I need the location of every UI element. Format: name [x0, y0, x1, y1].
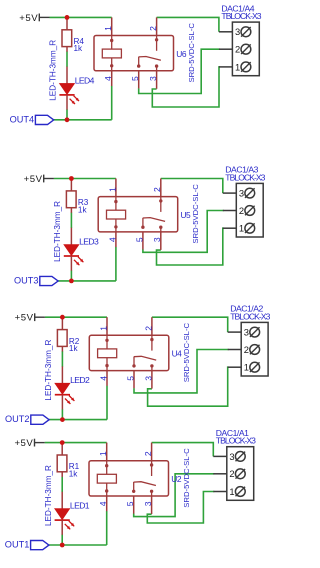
svg-text:1: 1 [98, 451, 108, 456]
svg-text:U6: U6 [176, 49, 187, 59]
svg-text:2: 2 [229, 468, 234, 479]
svg-text:SRD-5VDC-SL-C: SRD-5VDC-SL-C [187, 23, 196, 83]
svg-text:1: 1 [98, 326, 108, 331]
svg-text:TBLOCK-X3: TBLOCK-X3 [221, 11, 261, 21]
svg-text:OUT1: OUT1 [5, 540, 30, 550]
svg-text:1: 1 [229, 486, 234, 497]
svg-text:2: 2 [143, 451, 153, 456]
svg-text:1k: 1k [78, 205, 88, 214]
svg-text:+5V: +5V [15, 313, 34, 324]
svg-text:LED-TH-3mm_R: LED-TH-3mm_R [53, 201, 62, 262]
svg-text:2: 2 [244, 344, 249, 355]
svg-text:2: 2 [143, 326, 153, 331]
svg-text:LED2: LED2 [70, 375, 90, 385]
svg-text:3: 3 [143, 376, 153, 381]
svg-text:+5V: +5V [14, 438, 33, 449]
svg-text:TBLOCK-X3: TBLOCK-X3 [225, 172, 265, 182]
svg-text:5: 5 [125, 376, 135, 381]
svg-text:SRD-5VDC-SL-C: SRD-5VDC-SL-C [182, 448, 191, 508]
svg-text:2: 2 [152, 187, 162, 192]
svg-text:SRD-5VDC-SL-C: SRD-5VDC-SL-C [191, 184, 200, 244]
svg-text:3: 3 [244, 327, 249, 338]
svg-text:4: 4 [98, 501, 108, 506]
svg-text:OUT4: OUT4 [10, 114, 35, 124]
svg-text:1k: 1k [74, 44, 84, 53]
svg-text:TBLOCK-X3: TBLOCK-X3 [216, 436, 256, 446]
svg-text:1: 1 [244, 362, 249, 373]
svg-text:4: 4 [103, 76, 113, 81]
svg-text:OUT3: OUT3 [14, 275, 39, 285]
svg-text:3: 3 [229, 451, 234, 462]
svg-text:TBLOCK-X3: TBLOCK-X3 [230, 311, 270, 321]
svg-text:2: 2 [239, 205, 244, 216]
svg-text:5: 5 [125, 501, 135, 506]
svg-text:4: 4 [98, 376, 108, 381]
svg-text:U4: U4 [172, 349, 183, 359]
svg-text:1: 1 [107, 187, 117, 192]
svg-text:1k: 1k [69, 344, 79, 353]
svg-text:3: 3 [235, 26, 240, 37]
svg-text:LED-TH-3mm_R: LED-TH-3mm_R [44, 465, 53, 526]
svg-text:1: 1 [235, 61, 240, 72]
svg-text:+5V: +5V [24, 174, 43, 185]
svg-text:U5: U5 [181, 210, 192, 220]
svg-text:U2: U2 [171, 474, 182, 484]
svg-text:1: 1 [103, 26, 113, 31]
svg-text:LED3: LED3 [79, 236, 99, 246]
svg-text:LED-TH-3mm_R: LED-TH-3mm_R [44, 340, 53, 401]
svg-text:+5V: +5V [19, 13, 38, 24]
svg-text:2: 2 [148, 26, 158, 31]
svg-text:3: 3 [143, 501, 153, 506]
svg-text:LED-TH-3mm_R: LED-TH-3mm_R [49, 40, 58, 101]
svg-text:5: 5 [134, 237, 144, 242]
svg-text:SRD-5VDC-SL-C: SRD-5VDC-SL-C [182, 322, 191, 382]
svg-text:LED1: LED1 [70, 501, 90, 511]
svg-text:3: 3 [152, 237, 162, 242]
svg-text:LED4: LED4 [75, 75, 95, 85]
svg-text:OUT2: OUT2 [5, 414, 30, 424]
svg-text:3: 3 [148, 76, 158, 81]
svg-text:2: 2 [235, 44, 240, 55]
svg-text:1k: 1k [69, 469, 79, 478]
svg-text:1: 1 [239, 223, 244, 234]
svg-text:5: 5 [130, 76, 140, 81]
svg-text:4: 4 [107, 237, 117, 242]
svg-text:3: 3 [239, 188, 244, 199]
